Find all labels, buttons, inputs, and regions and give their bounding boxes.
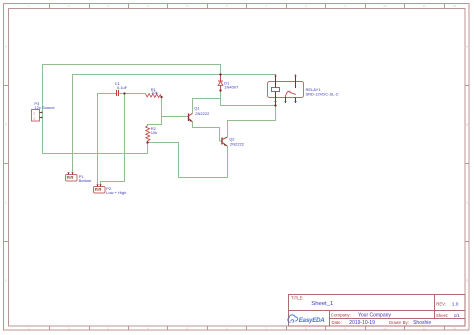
svg-text:4: 4 [147,327,149,331]
svg-text:D: D [466,279,469,283]
svg-text:C: C [5,201,8,205]
svg-text:Company:: Company: [331,312,351,317]
svg-text:5: 5 [186,4,188,8]
svg-text:Sheet_1: Sheet_1 [311,301,333,307]
svg-text:7: 7 [265,4,267,8]
svg-text:Shoshie: Shoshie [413,320,431,326]
svg-text:Bottom: Bottom [79,178,92,183]
svg-text:Sheet:: Sheet: [436,313,448,318]
svg-text:2: 2 [68,4,70,8]
svg-text:9: 9 [344,327,346,331]
svg-text:Q2: Q2 [229,136,235,141]
svg-text:Low + High: Low + High [106,190,126,195]
svg-text:1/1: 1/1 [454,313,461,318]
svg-text:1: 1 [33,116,35,120]
svg-text:5: 5 [186,327,188,331]
svg-text:C: C [466,201,469,205]
svg-text:Drawn By:: Drawn By: [389,320,409,325]
svg-text:4: 4 [147,4,149,8]
svg-text:11: 11 [423,4,426,8]
svg-text:6: 6 [226,327,228,331]
svg-text:Your Company: Your Company [358,313,391,319]
svg-text:SRD-12VDC-SL-C: SRD-12VDC-SL-C [306,92,339,97]
svg-text:10k: 10k [151,130,157,135]
svg-text:TITLE:: TITLE: [291,295,304,300]
svg-text:8: 8 [305,327,307,331]
svg-text:10: 10 [383,4,387,8]
svg-text:1.0: 1.0 [452,302,459,308]
svg-text:REV:: REV: [436,301,446,306]
svg-text:B: B [466,123,468,127]
svg-text:1N4007: 1N4007 [224,84,239,89]
svg-text:A: A [5,45,8,49]
svg-text:2019-10-19: 2019-10-19 [349,320,375,326]
svg-text:12: 12 [453,4,457,8]
svg-text:2N2222: 2N2222 [230,142,245,147]
svg-text:1: 1 [28,327,30,331]
svg-text:B: B [5,123,7,127]
svg-text:1: 1 [28,4,30,8]
svg-text:2: 2 [68,327,70,331]
svg-text:0.1uF: 0.1uF [117,85,128,90]
svg-text:10: 10 [383,327,387,331]
svg-text:12: 12 [453,327,457,331]
svg-text:2: 2 [33,112,35,116]
svg-text:10k: 10k [151,90,157,95]
svg-text:D: D [5,279,8,283]
svg-text:9: 9 [344,4,346,8]
svg-text:3: 3 [107,327,109,331]
svg-text:12v Source: 12v Source [34,105,55,110]
svg-text:Date:: Date: [332,320,342,325]
svg-text:2N2222: 2N2222 [195,111,210,116]
svg-text:7: 7 [265,327,267,331]
svg-text:6: 6 [226,4,228,8]
svg-text:8: 8 [305,4,307,8]
svg-text:11: 11 [423,327,426,331]
svg-text:3: 3 [107,4,109,8]
svg-text:EasyEDA: EasyEDA [299,317,325,324]
